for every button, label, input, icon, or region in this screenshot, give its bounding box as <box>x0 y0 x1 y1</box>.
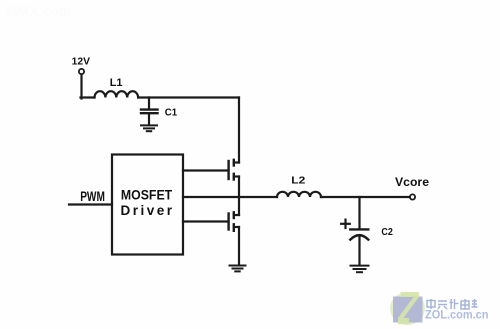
wire 12V terminal to rail <box>80 74 82 98</box>
wire C1 node to capacitor <box>148 98 150 109</box>
svg-text:ZOL.com.cn: ZOL.com.cn <box>425 308 489 322</box>
svg-text:C2: C2 <box>381 227 393 238</box>
wire rail L1 to corner <box>138 96 239 98</box>
wire C2 to ground <box>358 237 360 265</box>
transistor Q2 lower MOSFET <box>229 212 239 231</box>
inductor L1 <box>95 91 139 97</box>
plus sign of C2 <box>341 220 350 228</box>
IC U1 MOSFET Driver box <box>112 155 183 255</box>
wire Q2 source to ground <box>238 227 240 265</box>
ground below Q2 <box>230 266 246 272</box>
svg-text:MOSFET: MOSFET <box>121 188 173 203</box>
terminal 12V <box>79 69 84 74</box>
capacitor C2 polarized <box>350 229 368 239</box>
svg-text:Vcore: Vcore <box>395 177 429 189</box>
svg-text:C1: C1 <box>165 107 178 118</box>
svg-text:5iMX.com: 5iMX.com <box>6 3 71 19</box>
svg-text:12V: 12V <box>72 56 91 67</box>
svg-text:L2: L2 <box>291 175 305 187</box>
wire lower gate <box>183 220 228 222</box>
wire C1 to ground <box>148 113 150 124</box>
wire L2 to Vcore <box>321 196 410 198</box>
watermark ZOL logo <box>390 292 425 325</box>
capacitor C1 <box>141 110 158 114</box>
ground below C1 <box>141 125 157 131</box>
wire mid rail to L2 <box>183 196 277 198</box>
transistor Q1 upper MOSFET <box>229 160 239 180</box>
svg-text:L1: L1 <box>110 77 123 89</box>
terminal Vcore <box>410 194 415 199</box>
watermark text 中关村在线 <box>427 299 478 309</box>
ground below C2 <box>351 266 369 273</box>
wire PWM input <box>69 203 112 205</box>
wire C2 node down <box>358 197 360 229</box>
wire upper gate <box>183 169 228 171</box>
svg-text:PWM: PWM <box>80 189 105 204</box>
wire Q1 source to mid rail <box>238 177 240 198</box>
wire mid rail to Q2 drain <box>238 197 240 215</box>
wire rail left of L1 <box>81 96 95 98</box>
wire drain vertical upper MOSFET <box>238 98 240 163</box>
ghost artifact top-left <box>6 3 71 19</box>
inductor L2 <box>277 192 321 197</box>
